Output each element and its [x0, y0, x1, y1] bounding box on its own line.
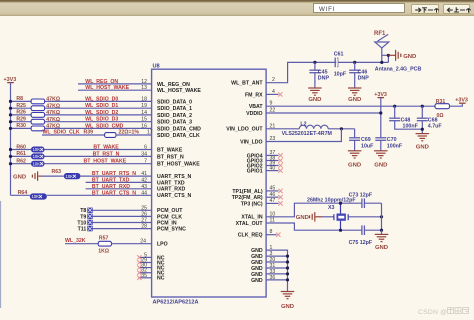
inductor L2	[299, 125, 328, 129]
svg-text:4: 4	[272, 89, 275, 95]
wire VBAT rail	[266, 105, 435, 107]
resistor R26	[31, 113, 44, 118]
svg-text:+3V3: +3V3	[455, 97, 468, 103]
junction case right to gnd rail	[380, 215, 383, 218]
svg-text:SDIO_DATA_CLK: SDIO_DATA_CLK	[157, 133, 200, 139]
svg-text:T8: T8	[80, 208, 86, 214]
wire WL_SDIO_D1 to IC pin 19	[45, 107, 152, 109]
svg-text:BT_HOST_WAKE: BT_HOST_WAKE	[84, 159, 127, 165]
svg-text:SDIO_DATA_1: SDIO_DATA_1	[157, 106, 192, 112]
wire WL_SDIO_D3 to IC pin 15	[45, 121, 152, 123]
svg-text:R39: R39	[84, 130, 94, 136]
wire C69 to ground	[354, 140, 356, 151]
capacitor C46	[349, 70, 360, 73]
test point T9	[87, 214, 92, 219]
junction on bus at BT_RST_N	[9, 155, 12, 158]
wire C73 to gnd rail	[364, 202, 381, 204]
wire WL_32K to R57	[65, 243, 98, 245]
svg-text:6: 6	[144, 145, 147, 151]
test point T11	[87, 226, 92, 231]
svg-text:46: 46	[270, 192, 276, 198]
svg-text:UART_TXD: UART_TXD	[157, 180, 185, 186]
no-connect X at pin 39	[278, 163, 282, 167]
wire stub pin 40	[266, 170, 278, 172]
wire case left to crystal	[321, 216, 334, 218]
wire clipped at left edge	[0, 201, 2, 308]
svg-text:WL_SDIO_D1: WL_SDIO_D1	[85, 103, 118, 109]
svg-text:BT_RST_N: BT_RST_N	[93, 151, 120, 157]
svg-text:GND: GND	[296, 215, 309, 221]
wire R63 to IC pin 41	[80, 175, 151, 177]
svg-text:FM_RX: FM_RX	[245, 92, 263, 98]
svg-text:10K: 10K	[33, 147, 41, 152]
svg-text:AP6212/AP6212A: AP6212/AP6212A	[153, 299, 199, 305]
svg-text:WL_REG_ON: WL_REG_ON	[85, 79, 118, 85]
svg-text:R26: R26	[16, 110, 26, 116]
svg-text:10uF: 10uF	[361, 143, 374, 149]
svg-text:C70: C70	[387, 137, 397, 143]
svg-text:T9: T9	[80, 214, 86, 220]
wire VDDIO rail	[266, 112, 381, 114]
svg-text:WL_SDIO_D3: WL_SDIO_D3	[85, 117, 118, 123]
wire XTAL_OUT	[266, 223, 362, 230]
svg-text:SDIO_DATA_0: SDIO_DATA_0	[157, 99, 192, 105]
svg-text:WL_HOST_WAKE: WL_HOST_WAKE	[157, 88, 201, 94]
svg-text:BT_UART_TXD: BT_UART_TXD	[92, 177, 130, 183]
svg-text:TP2(FM_AR): TP2(FM_AR)	[232, 195, 263, 201]
wire bus to R25	[11, 107, 32, 109]
ground (C69)	[348, 151, 362, 169]
no-connect X at FM_RX	[278, 92, 282, 96]
svg-text:15: 15	[141, 117, 147, 123]
svg-text:18: 18	[141, 96, 147, 102]
wire WL_SDIO_CMD to IC pin 16	[45, 127, 152, 129]
wire CLK_REQ stub	[266, 234, 276, 236]
no-connect X at CLK_REQ	[276, 233, 280, 237]
wire C45 to ground	[314, 73, 316, 88]
wire BT_RST_N to IC pin 34	[45, 155, 152, 157]
svg-text:WL_SDIO_CMD: WL_SDIO_CMD	[85, 123, 124, 129]
svg-text:25: 25	[141, 205, 147, 211]
svg-text:47: 47	[270, 198, 276, 204]
svg-text:TP1(FM_AL): TP1(FM_AL)	[232, 189, 263, 195]
ground (IC GND pins)	[281, 292, 295, 310]
svg-text:C48: C48	[401, 117, 411, 123]
wire R31 to +3V3	[450, 104, 463, 106]
svg-text:43: 43	[141, 184, 147, 190]
svg-text:VDDIO: VDDIO	[246, 111, 262, 117]
wire bus to R30	[11, 127, 32, 129]
wire BT_HOST_WAKE to IC pin 7	[45, 163, 152, 165]
resistor R31	[435, 104, 450, 109]
capacitor C75 (series)	[362, 225, 365, 235]
no-connect X at pin 29	[137, 260, 141, 264]
wire GND pin 33	[266, 273, 287, 275]
wire GND pin 20	[266, 261, 287, 263]
svg-text:PCM_OUT: PCM_OUT	[157, 208, 183, 214]
wire WL_SDIO_CLK left segment	[42, 134, 105, 136]
junction on bus at BT_HOST_WAKE	[9, 162, 12, 165]
svg-text:22: 22	[270, 108, 276, 114]
svg-text:10K: 10K	[66, 174, 74, 179]
wire stub pin 37	[266, 154, 278, 156]
junction GND pin 36	[286, 278, 289, 281]
svg-text:10K: 10K	[32, 194, 40, 199]
svg-text:R60: R60	[16, 144, 26, 150]
svg-text:Antana_2.4G_PCB: Antana_2.4G_PCB	[375, 66, 422, 72]
no-connect X at pin 40	[278, 168, 282, 172]
wire GND bus collector	[266, 250, 287, 291]
power +3V3 (mid)	[374, 92, 387, 98]
svg-text:WL_BT_ANT: WL_BT_ANT	[231, 81, 263, 87]
wire BT_UART_RXD	[86, 188, 152, 190]
ground bars crystal left	[310, 212, 321, 222]
wire antenna line to C46	[354, 62, 356, 70]
svg-text:BT_UART_RXD: BT_UART_RXD	[92, 184, 130, 190]
junction C46	[353, 61, 356, 64]
svg-text:C73 12pF: C73 12pF	[349, 192, 373, 198]
svg-text:26: 26	[141, 211, 147, 217]
svg-text:1KΩ: 1KΩ	[98, 248, 109, 254]
test point T10	[87, 220, 92, 225]
resistor R57	[98, 241, 111, 246]
svg-text:VLS252012ET-4R7M: VLS252012ET-4R7M	[282, 131, 333, 137]
wire L2 to C69	[328, 128, 355, 130]
svg-text:9: 9	[270, 101, 273, 107]
resistor R60 10K	[31, 147, 45, 153]
wire T9 to IC pin 26	[93, 215, 152, 217]
svg-text:GND: GND	[348, 97, 361, 103]
wire bus to R62	[11, 163, 32, 165]
resistor R62 10K	[31, 161, 45, 167]
svg-text:R30: R30	[16, 123, 26, 129]
svg-text:2: 2	[272, 77, 275, 83]
wire BT_UART_TXD	[86, 181, 152, 183]
svg-text:42: 42	[141, 177, 147, 183]
no-connect X at pin 30	[137, 265, 141, 269]
wire antenna line to C45	[314, 62, 316, 70]
svg-text:R57: R57	[99, 235, 109, 241]
wire GND to R63	[42, 175, 64, 177]
svg-text:24: 24	[140, 238, 146, 244]
power +3V3 (right)	[455, 97, 468, 103]
wire stub pin 38	[266, 160, 278, 162]
wire R39 to IC pin 17	[116, 134, 152, 136]
svg-text:BT_HOST_WAKE: BT_HOST_WAKE	[157, 162, 200, 168]
svg-text:BT_UART_CTS_N: BT_UART_CTS_N	[92, 190, 136, 196]
wire NC stub pin 5	[140, 256, 152, 258]
svg-text:DNP: DNP	[318, 76, 330, 82]
wire +3V3 down to C70	[380, 98, 382, 138]
svg-text:13: 13	[141, 85, 147, 91]
wire bus to R8	[11, 100, 32, 102]
svg-text:GND: GND	[251, 278, 263, 284]
wire crystal gnd rail vertical	[381, 203, 383, 230]
wire GND pin 3	[266, 255, 287, 257]
wire stub pin 39	[266, 165, 278, 167]
wire C70 to ground	[380, 140, 382, 151]
ground (antenna)	[388, 50, 400, 61]
wire GND pin 36	[266, 279, 287, 281]
svg-text:U8: U8	[153, 64, 160, 70]
svg-text:R25: R25	[16, 103, 26, 109]
svg-text:XTAL_OUT: XTAL_OUT	[236, 221, 264, 227]
wire stub pin 47	[266, 202, 278, 204]
wire R57 to IC pin 24	[112, 243, 152, 245]
capacitor C69	[349, 138, 360, 141]
wire bus to R26	[11, 114, 32, 116]
wire VIN_LDO pin 23	[266, 129, 341, 142]
svg-text:UART_CTS_N: UART_CTS_N	[157, 193, 192, 199]
svg-text:GND: GND	[281, 304, 294, 310]
svg-text:T11: T11	[78, 227, 87, 233]
svg-text:NC: NC	[157, 276, 165, 282]
svg-text:C69: C69	[361, 137, 371, 143]
wire R64 to IC pin 44	[47, 194, 152, 196]
svg-text:R61: R61	[16, 151, 26, 157]
svg-text:PCM_SYNC: PCM_SYNC	[157, 227, 186, 233]
wire +3V3 bus vertical	[10, 83, 12, 196]
svg-text:44: 44	[141, 190, 147, 196]
svg-text:C61: C61	[334, 52, 344, 58]
wire XTAL_IN	[266, 203, 362, 217]
op-amp U1 (IC U8 AP6212 module body)	[152, 69, 267, 297]
svg-text:VIN_LDO: VIN_LDO	[240, 139, 262, 145]
wire node to C69	[354, 129, 356, 138]
svg-text:L2: L2	[300, 121, 306, 127]
ground (crystal)	[375, 234, 389, 250]
junction on bus at BT_WAKE	[9, 148, 12, 151]
svg-text:21: 21	[270, 123, 276, 129]
capacitor C61 (series)	[335, 58, 338, 68]
svg-text:10: 10	[270, 211, 276, 217]
svg-text:BT_WAKE: BT_WAKE	[157, 147, 183, 153]
svg-text:VBAT: VBAT	[249, 104, 264, 110]
test point T8	[87, 208, 92, 213]
junction on bus at WL_SDIO_CMD	[9, 127, 12, 130]
svg-text:GND: GND	[416, 144, 429, 150]
wire antenna ground pin	[382, 55, 389, 62]
svg-text:CLK_REQ: CLK_REQ	[238, 233, 263, 239]
resistor R39	[105, 133, 116, 138]
svg-text:C46: C46	[358, 69, 368, 75]
svg-text:0Ω: 0Ω	[437, 113, 444, 119]
svg-text:RF1: RF1	[374, 31, 386, 37]
ground (C45)	[308, 88, 322, 103]
svg-text:8: 8	[270, 229, 273, 235]
svg-text:WL_HOST_WAKE: WL_HOST_WAKE	[85, 85, 129, 91]
capacitor C70	[375, 138, 386, 141]
svg-text:WL_32K: WL_32K	[65, 238, 86, 244]
wire WL_SDIO_D2 to IC pin 14	[45, 114, 152, 116]
svg-text:SDIO_DATA_3: SDIO_DATA_3	[157, 120, 192, 126]
svg-text:34: 34	[141, 151, 147, 157]
ground (at R63)	[13, 174, 26, 180]
wire VIN_LDO_OUT to L2	[266, 128, 299, 130]
wire bus to R29	[11, 121, 32, 123]
svg-text:SDIO_DATA_CMD: SDIO_DATA_CMD	[157, 126, 201, 132]
capacitor C45	[309, 70, 320, 73]
svg-text:GND: GND	[403, 54, 416, 60]
junction GND pin 20	[286, 260, 289, 263]
svg-text:GND: GND	[375, 245, 388, 251]
junction on bus at WL_SDIO_D1	[9, 107, 12, 110]
no-connect X at pin 35	[137, 276, 141, 280]
wire WL_HOST_WAKE	[78, 89, 152, 91]
svg-text:DNP: DNP	[358, 76, 370, 82]
svg-text:16: 16	[141, 123, 147, 129]
junction antenna feed	[380, 61, 383, 64]
resistor R8	[31, 99, 44, 104]
svg-text:PCM_CLK: PCM_CLK	[157, 214, 182, 220]
wire NC stub pin 30	[140, 267, 152, 269]
junction GND pin 31	[286, 266, 289, 269]
wire C68 bottom to ground	[421, 121, 423, 134]
svg-text:10K: 10K	[33, 161, 41, 166]
svg-text:R29: R29	[16, 117, 26, 123]
svg-text:40: 40	[270, 165, 276, 171]
svg-text:T10: T10	[77, 220, 86, 226]
power +3V3 (left rail)	[4, 77, 17, 83]
svg-text:SDIO_DATA_2: SDIO_DATA_2	[157, 113, 192, 119]
svg-text:23: 23	[270, 136, 276, 142]
ground (C70)	[374, 151, 388, 169]
ground (crystal case left)	[296, 215, 309, 221]
junction crystal top	[339, 202, 342, 205]
wire WL_BT_ANT from pin 2	[266, 62, 388, 82]
wire NC stub pin 35	[140, 277, 152, 279]
svg-text:WL_SDIO_D2: WL_SDIO_D2	[85, 110, 118, 116]
svg-text:GND: GND	[308, 97, 321, 103]
junction GND pin 3	[286, 255, 289, 258]
capacitor C68	[417, 118, 428, 121]
junction on bus at WL_SDIO_D0	[9, 100, 12, 103]
wire VBAT to C68	[421, 106, 423, 118]
wire T11 to IC pin 28	[93, 228, 152, 230]
no-connect X at pin 45	[278, 189, 282, 193]
junction C45	[313, 61, 316, 64]
svg-text:27: 27	[141, 218, 147, 224]
svg-text:7: 7	[144, 159, 147, 165]
svg-text:BT_UART_RTS_N: BT_UART_RTS_N	[92, 171, 136, 177]
wire T8 to IC pin 25	[93, 209, 152, 211]
svg-text:4.7uF: 4.7uF	[428, 124, 443, 130]
svg-text:R63: R63	[52, 169, 62, 175]
svg-text:19: 19	[141, 103, 147, 109]
wire C46 to ground	[354, 73, 356, 88]
svg-text:VIN_LDO_OUT: VIN_LDO_OUT	[226, 127, 263, 133]
svg-text:C45: C45	[318, 69, 328, 75]
svg-text:R64: R64	[18, 190, 28, 196]
svg-text:41: 41	[141, 171, 147, 177]
svg-text:R8: R8	[16, 96, 23, 102]
svg-text:UART_RXD: UART_RXD	[157, 187, 185, 193]
svg-text:10K: 10K	[33, 154, 41, 159]
resistor R30	[31, 126, 44, 131]
svg-text:10pF: 10pF	[334, 72, 347, 78]
no-connect X at pin 47	[278, 201, 282, 205]
no-connect X at pin 37	[278, 153, 282, 157]
junction on bus at WL_SDIO_D2	[9, 113, 12, 116]
ground (C46)	[348, 88, 362, 103]
capacitor C73 (series)	[362, 198, 365, 208]
junction VIN_LDO node	[340, 127, 343, 130]
svg-text:GND: GND	[13, 174, 26, 180]
svg-text:X3: X3	[328, 205, 335, 211]
capacitor C48	[389, 118, 400, 121]
resistor R29	[31, 119, 44, 124]
junction C48 on VBAT	[393, 105, 396, 108]
wire FM_RX stub	[266, 93, 278, 95]
wire C75 to gnd rail	[364, 229, 381, 231]
antenna RF1	[375, 34, 389, 62]
svg-text:BT_RST_N: BT_RST_N	[157, 154, 184, 160]
no-connect X at pin 32	[137, 271, 141, 275]
wire WL_REG_ON	[78, 83, 152, 85]
no-connect X at pin 46	[278, 195, 282, 199]
junction C68 on VBAT	[421, 105, 424, 108]
wire bus to R60	[11, 149, 32, 151]
svg-text:28: 28	[141, 224, 147, 230]
junction C48/C68 ground tie	[421, 128, 424, 131]
svg-text:UART_RTS_N: UART_RTS_N	[157, 174, 192, 180]
svg-text:100nF: 100nF	[387, 143, 403, 149]
wire WL_SDIO_D0 to IC pin 18	[45, 100, 152, 102]
svg-text:BT_WAKE: BT_WAKE	[93, 145, 119, 151]
junction +3V3/VDDIO	[379, 111, 382, 114]
svg-text:XTAL_IN: XTAL_IN	[241, 215, 262, 221]
wire VBAT to C48	[394, 106, 396, 118]
svg-text:R31: R31	[436, 99, 446, 105]
ground (C48 C68)	[416, 134, 430, 151]
svg-text:17: 17	[147, 130, 153, 136]
svg-text:LPO: LPO	[157, 242, 168, 248]
wire bus to R61	[11, 155, 32, 157]
svg-text:14: 14	[141, 110, 147, 116]
svg-text:12: 12	[141, 79, 147, 85]
junction crystal bottom	[339, 229, 342, 232]
svg-text:36: 36	[270, 275, 276, 281]
wire gnd rail to ground	[381, 230, 383, 234]
wire crystal case right	[348, 216, 381, 218]
svg-text:35: 35	[141, 273, 147, 279]
svg-text:C75 12pF: C75 12pF	[349, 240, 373, 246]
svg-text:11: 11	[270, 218, 275, 224]
svg-text:WL_SDIO_CLK: WL_SDIO_CLK	[43, 130, 80, 136]
resistor R64 10K	[30, 193, 47, 199]
wire GND pin 31	[266, 267, 287, 269]
resistor R25	[31, 106, 44, 111]
svg-text:45: 45	[270, 186, 276, 192]
crystal X3	[334, 203, 348, 230]
svg-text:R62: R62	[16, 159, 26, 165]
junction on bus at WL_SDIO_D3	[9, 120, 12, 123]
wire NC stub pin 32	[140, 272, 152, 274]
ground bars at R63	[32, 171, 41, 181]
no-connect X at pin 5	[137, 255, 141, 259]
wire T10 to IC pin 27	[93, 222, 152, 224]
junction gnd rail bottom	[380, 229, 383, 232]
svg-text:WL_REG_ON: WL_REG_ON	[157, 82, 190, 88]
wire stub pin 45	[266, 190, 278, 192]
svg-text:GND: GND	[374, 162, 387, 168]
svg-text:GND: GND	[348, 162, 361, 168]
svg-text:PCM_IN: PCM_IN	[157, 220, 177, 226]
wire bus corner to R64	[11, 194, 30, 196]
svg-text:GPIO1: GPIO1	[247, 169, 263, 175]
svg-text:TP3 (NC): TP3 (NC)	[241, 201, 263, 207]
resistor R61 10K	[31, 153, 45, 159]
